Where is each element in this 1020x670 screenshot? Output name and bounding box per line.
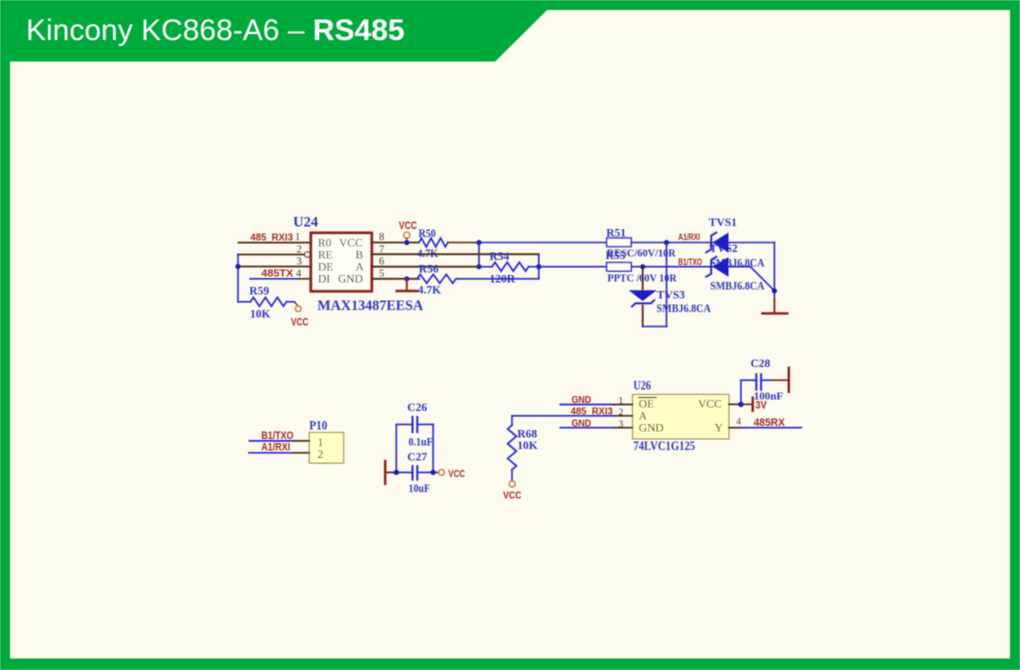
junction pin 6 / R54 left	[476, 264, 481, 269]
U24 designator label	[293, 215, 318, 231]
net label A1/RXI	[261, 442, 290, 454]
svg-text:4: 4	[296, 269, 302, 280]
pin 2 inversion bubble	[305, 252, 310, 257]
wire C26/C27 right vertical	[432, 424, 434, 472]
svg-text:485RX: 485RX	[754, 417, 786, 429]
svg-text:TVS1: TVS1	[709, 217, 737, 229]
U26 inner pin name A	[639, 411, 648, 423]
svg-text:GND: GND	[639, 422, 664, 434]
svg-text:C27: C27	[407, 452, 427, 464]
svg-text:1: 1	[318, 437, 324, 449]
power bar 3V	[752, 398, 754, 411]
R56 value 4.7K	[418, 284, 441, 296]
svg-text:B1/TXO: B1/TXO	[678, 257, 702, 267]
svg-text:DE: DE	[318, 262, 333, 274]
svg-text:C26: C26	[407, 402, 427, 414]
VCC port circle at C27	[439, 470, 445, 476]
svg-text:4: 4	[736, 418, 741, 428]
resistor R68	[508, 416, 517, 481]
junction VCC/R50	[404, 240, 409, 245]
connector P10 designator	[309, 418, 327, 432]
R54 designator	[490, 251, 510, 263]
wire R55 to TVS2 (B line)	[631, 266, 713, 268]
svg-text:R55: R55	[606, 250, 626, 262]
svg-text:C28: C28	[751, 358, 771, 370]
C27 designator	[407, 452, 427, 464]
resistor R55 PPTC fuse body	[607, 263, 632, 272]
junction A line / TVS3 bypass	[664, 240, 669, 245]
wire TVS3 stem lower (dark)	[642, 306, 644, 327]
svg-text:U24: U24	[293, 215, 318, 231]
svg-text:R56: R56	[419, 264, 439, 276]
C28 designator	[751, 358, 771, 370]
svg-text:10K: 10K	[517, 440, 538, 452]
svg-text:6: 6	[379, 256, 384, 267]
net label GND pin1	[572, 394, 592, 406]
capacitor C27	[392, 466, 438, 479]
svg-text:RE: RE	[318, 250, 333, 262]
VCC text at R68	[503, 490, 522, 502]
net label A1/RXI	[678, 232, 700, 242]
U24 pin number 2	[297, 244, 302, 255]
wire vertical B to R54 right and R56	[538, 254, 540, 279]
P10 pin number 2	[318, 449, 324, 461]
svg-text:120R: 120R	[490, 274, 516, 286]
U26 inner pin name OE with overbar	[639, 398, 656, 411]
R50 designator	[419, 228, 437, 240]
U26 inner pin name Y	[715, 422, 724, 434]
svg-text:485TX: 485TX	[261, 267, 293, 279]
C27 value 10uF	[409, 483, 431, 495]
svg-text:MAX13487EESA: MAX13487EESA	[317, 298, 423, 314]
U26 value 74LVC1G125	[633, 439, 695, 453]
VCC port circle at R59	[295, 306, 301, 312]
junction VCC/C28	[738, 402, 744, 408]
svg-text:2: 2	[318, 449, 324, 461]
wire TVS3 stem upper (dark)	[642, 267, 644, 291]
U24 pin number 8	[379, 232, 384, 243]
wire C28 left vertical	[740, 380, 742, 404]
svg-text:OE: OE	[639, 399, 654, 411]
svg-text:GND: GND	[338, 273, 363, 285]
ground symbol at pin 5	[397, 279, 417, 291]
junction A pull-up	[476, 240, 481, 245]
U24 pin number 3	[297, 256, 302, 267]
U26 pin number 4	[736, 418, 741, 428]
svg-text:Y: Y	[715, 422, 724, 434]
ground bar left of C27	[385, 461, 392, 484]
wire U24 pin 7 (B)	[372, 253, 539, 255]
U26 pin number 3	[619, 420, 624, 430]
svg-text:0.1uF: 0.1uF	[409, 436, 433, 448]
wire P10 pin 1	[250, 440, 310, 442]
ground symbol right	[762, 299, 787, 313]
svg-text:VCC: VCC	[698, 399, 722, 411]
junction pin 5 / ground	[404, 276, 409, 281]
IC U24 RS485 transceiver body	[311, 233, 372, 291]
svg-text:P10: P10	[309, 418, 327, 432]
wire C26/C27 left vertical	[395, 424, 397, 472]
R54 value 120R	[490, 274, 516, 286]
wire TVS3 bypass bottom	[643, 326, 667, 328]
svg-text:A1/RXI: A1/RXI	[678, 232, 700, 242]
wire P10 pin 2	[249, 452, 309, 454]
resistor R54 termination	[479, 262, 539, 271]
VCC port circle above pin 8	[404, 232, 410, 242]
svg-text:GND: GND	[572, 394, 592, 406]
svg-text:R50: R50	[419, 228, 437, 240]
U24 pin number 5	[379, 269, 384, 280]
U24 pin number 7	[379, 244, 384, 255]
svg-text:485_RXI3: 485_RXI3	[250, 231, 293, 243]
svg-text:10K: 10K	[250, 308, 271, 320]
svg-text:485_RXI3: 485_RXI3	[571, 405, 613, 417]
wire R50 to A-line junction	[448, 242, 479, 244]
svg-text:R59: R59	[249, 286, 269, 298]
U26 designator	[633, 379, 651, 393]
svg-text:VCC: VCC	[291, 316, 308, 328]
wire TVS3 bypass vertical to A line	[666, 243, 668, 327]
svg-text:A: A	[356, 262, 365, 274]
net label 485RX	[754, 417, 786, 429]
resistor R59	[238, 297, 298, 306]
U24 inner pin name A	[356, 262, 365, 274]
net label 485_RXI3 pin2	[571, 405, 613, 417]
svg-text:GND: GND	[572, 417, 592, 429]
capacitor C26	[396, 417, 433, 432]
U24 inner pin name R0	[318, 238, 332, 250]
wire U26 Y pin (485RX)	[729, 427, 801, 429]
wire U26 pin 1 (GND)	[560, 404, 632, 406]
svg-text:B: B	[356, 250, 364, 262]
wire U24 pin 3 (DE)	[238, 266, 311, 268]
TVS3 label	[657, 290, 685, 302]
wire U24 pin 8 to VCC junction	[372, 242, 419, 244]
net label 485_RXI3	[250, 231, 293, 243]
U26 pin number 2	[619, 408, 624, 418]
svg-text:SMBJ6.8CA: SMBJ6.8CA	[657, 303, 712, 315]
R51 value PPTC/60V/10R	[607, 249, 677, 260]
U26 inner pin name GND	[639, 422, 664, 434]
U24 inner pin name GND	[338, 273, 363, 285]
junction C27 right	[431, 470, 436, 475]
svg-text:R0: R0	[318, 238, 332, 250]
transient diode TVS3	[630, 291, 655, 307]
wire A line to R51	[479, 242, 607, 244]
svg-text:10uF: 10uF	[409, 483, 431, 495]
VCC text at R59	[291, 316, 308, 328]
svg-text:R54: R54	[490, 251, 510, 263]
TVS1 value SMBJ6.8CA	[710, 257, 765, 269]
svg-text:Kincony KC868-A6 – RS485: Kincony KC868-A6 – RS485	[26, 14, 405, 47]
wire B line to R55	[539, 266, 607, 268]
U24 pin number 4	[296, 269, 302, 280]
svg-text:A1/RXI: A1/RXI	[261, 442, 290, 454]
wire TVS1 to right corner	[728, 242, 774, 244]
R55 designator	[606, 250, 626, 262]
U24 value label MAX13487EESA	[317, 298, 423, 314]
R68 value 10K	[517, 440, 538, 452]
net label B1/TXO	[261, 430, 294, 442]
R51 designator	[606, 227, 626, 239]
U24 inner pin name VCC	[339, 238, 363, 250]
U24 pin number 1	[295, 232, 300, 243]
P10 pin number 1	[318, 437, 324, 449]
wire U24 pin 2 (RE)	[238, 254, 304, 256]
transient diode TVS1	[706, 233, 728, 253]
svg-text:8: 8	[379, 232, 384, 243]
C26 designator	[407, 402, 427, 414]
wire R51 to TVS1 (A line)	[631, 242, 713, 244]
svg-text:R51: R51	[606, 227, 626, 239]
wire U24 pin 4 (485TX)	[250, 278, 311, 280]
U24 inner pin name DI	[318, 273, 330, 285]
VCC text at C27	[448, 468, 465, 480]
TVS2 value SMBJ6.8CA	[710, 281, 765, 293]
wire U26 pin 2 (485_RXI3)	[512, 415, 633, 417]
svg-text:VCC: VCC	[448, 468, 465, 480]
VCC text above pin 8	[399, 220, 417, 232]
resistor R56	[417, 274, 456, 283]
junction pin3/vertical	[235, 264, 240, 269]
connector P10 body	[309, 433, 343, 464]
TVS3 value SMBJ6.8CA	[657, 303, 712, 315]
net label GND pin3	[572, 417, 592, 429]
junction C27 left	[394, 470, 399, 475]
svg-text:VCC: VCC	[503, 490, 522, 502]
U26 inner pin name VCC	[698, 399, 722, 411]
net label 485TX	[261, 267, 293, 279]
transient diode TVS2	[706, 257, 728, 277]
R56 designator	[419, 264, 439, 276]
svg-text:DI: DI	[318, 273, 330, 285]
R59 designator	[249, 286, 269, 298]
svg-text:VCC: VCC	[339, 238, 363, 250]
wire right vertical A to ground junction	[773, 243, 775, 300]
junction R54 right on B vertical	[536, 264, 541, 269]
U24 pin number 6	[379, 256, 384, 267]
wire U24 pin 5 (GND)	[372, 278, 419, 280]
R55 value PPTC /60V 10R	[607, 274, 677, 285]
3V label	[755, 400, 767, 412]
VCC port circle at R68	[509, 481, 515, 487]
svg-text:VCC: VCC	[399, 220, 417, 232]
R59 value 10K	[250, 308, 271, 320]
wire TVS2 to diagonal	[728, 266, 751, 268]
wire U26 VCC pin to 3V	[729, 403, 752, 405]
svg-text:74LVC1G125: 74LVC1G125	[633, 439, 695, 453]
U26 pin number 1	[619, 397, 624, 407]
R50 value 4.7K	[417, 248, 438, 260]
U24 inner pin name DE	[318, 262, 333, 274]
C28 value 100nF	[754, 390, 784, 402]
ground bar right of C28	[788, 368, 790, 392]
svg-text:B1/TXO: B1/TXO	[261, 430, 294, 442]
R68 designator	[517, 429, 537, 441]
wire U24 pin 6 (A)	[372, 266, 479, 268]
resistor R50	[419, 238, 448, 247]
svg-text:TVS3: TVS3	[657, 290, 685, 302]
junction at right ground	[772, 288, 777, 293]
svg-text:U26: U26	[633, 379, 651, 393]
U24 inner pin name RE	[318, 250, 333, 262]
wire U24 pin 1 (485_RXI3)	[239, 242, 311, 244]
wire left vertical joining pins 2,3 to R59	[237, 255, 239, 302]
wire U26 pin 3 (GND)	[560, 427, 632, 429]
svg-text:SMBJ6.8CA: SMBJ6.8CA	[710, 281, 765, 293]
net label B1/TXO	[678, 257, 702, 267]
wire diagonal B to ground junction	[751, 267, 775, 291]
wire vertical pull-up to pin 6 line	[478, 243, 480, 267]
svg-text:A: A	[639, 411, 648, 423]
resistor R51 PPTC fuse body	[607, 238, 632, 247]
capacitor C28	[741, 374, 788, 390]
TVS1 label	[709, 217, 737, 229]
IC U26 buffer body	[633, 394, 729, 439]
svg-text:4.7K: 4.7K	[418, 284, 441, 296]
junction B line / TVS3 stem	[640, 264, 645, 269]
U24 inner pin name B	[356, 250, 364, 262]
wire R56 to B vertical	[457, 278, 539, 280]
C26 value 0.1uF	[409, 436, 433, 448]
svg-text:100nF: 100nF	[754, 390, 784, 402]
svg-text:1: 1	[295, 232, 300, 243]
TVS2 label	[710, 243, 738, 255]
